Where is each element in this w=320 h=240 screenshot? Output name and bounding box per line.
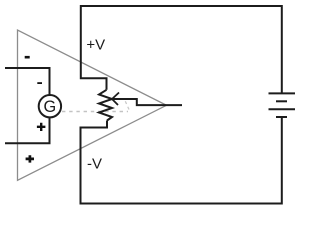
svg-text:G: G xyxy=(43,98,56,116)
wire -V supply: battery negative to bottom rail to pot bottom xyxy=(81,117,282,204)
op-amp non-inverting input marker + xyxy=(26,155,34,162)
svg-text:-V: -V xyxy=(87,155,102,172)
potentiometer wiper arrow barb upper xyxy=(112,93,119,100)
potentiometer wiper arrow barb lower xyxy=(112,99,118,105)
meter polarity - xyxy=(37,82,42,84)
wire inverting input lead to meter top xyxy=(5,68,50,95)
wire wiper to op-amp output xyxy=(112,99,182,105)
battery B1 plate short bottom xyxy=(276,116,287,118)
wire meter bottom to non-inverting input lead xyxy=(5,117,50,143)
potentiometer R1 zigzag xyxy=(99,90,112,121)
svg-text:+V: +V xyxy=(86,36,105,53)
battery B1 plate long top xyxy=(269,92,296,94)
meter polarity + xyxy=(37,123,46,131)
op-amp U1 triangle body xyxy=(18,30,167,180)
galvanometer G circle xyxy=(39,95,61,117)
dashed pointer to wiper xyxy=(125,100,130,110)
battery B1 plate short xyxy=(276,100,287,102)
op-amp inverting input marker - xyxy=(25,56,30,59)
mechanical linkage dashed line from G to pot wiper xyxy=(62,111,128,113)
battery B1 plate long xyxy=(269,108,296,110)
wire +V supply: pot top to top rail to battery positive xyxy=(81,6,282,93)
